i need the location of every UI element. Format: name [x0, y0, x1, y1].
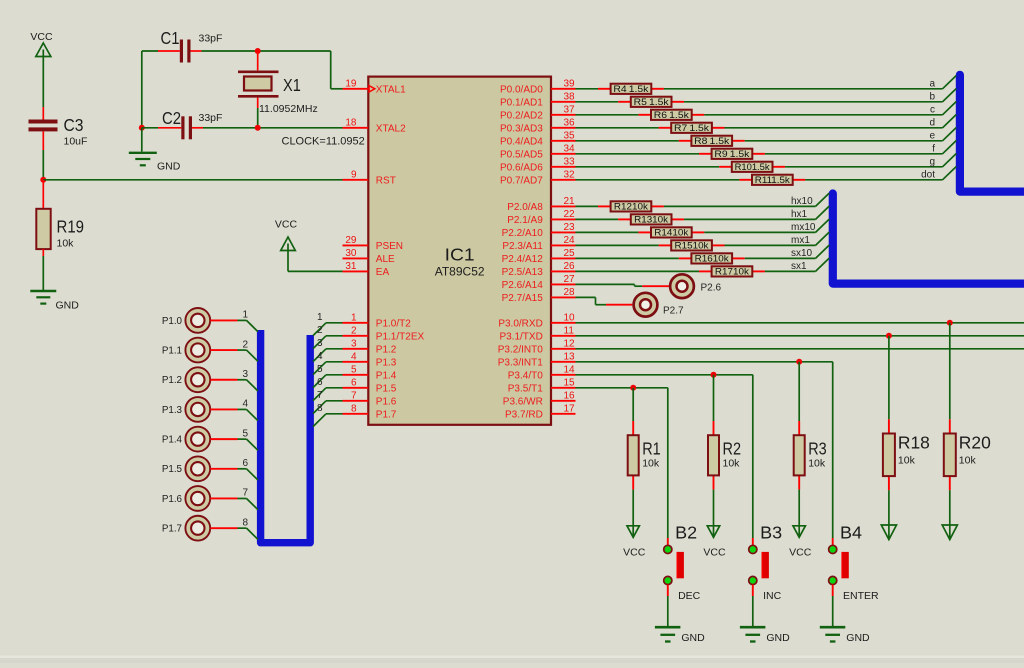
wire pin line to R3: [798, 362, 800, 421]
svg-text:R1: R1: [642, 439, 661, 459]
wire R8 to bus, net e: [745, 128, 957, 141]
svg-text:b: b: [929, 92, 935, 103]
wire R6 to bus, net c: [704, 102, 956, 115]
svg-text:7: 7: [351, 390, 357, 401]
svg-text:hx10: hx10: [791, 196, 813, 207]
svg-text:hx1: hx1: [791, 209, 808, 220]
bus (P1 header U-shape, thick blue): [261, 330, 311, 543]
wire X1 bottom to C2 line: [257, 98, 259, 128]
svg-text:P2.7/A15: P2.7/A15: [502, 293, 544, 304]
svg-text:10uF: 10uF: [64, 136, 88, 148]
svg-text:XTAL1: XTAL1: [376, 85, 406, 96]
svg-text:P1.1/T2EX: P1.1/T2EX: [376, 332, 425, 343]
svg-text:c: c: [930, 105, 935, 116]
IC1 pin 13 (P3.3/INT1) stub: [498, 351, 576, 368]
IC1 pin 33 (P0.6/AD6) stub: [500, 156, 576, 173]
IC1 pin 31 (EA) stub: [343, 261, 390, 278]
IC1 pin 27 (P2.6/A14) stub: [502, 274, 576, 291]
svg-text:mx1: mx1: [791, 235, 810, 246]
svg-text:39: 39: [564, 78, 576, 89]
svg-text:32: 32: [564, 169, 576, 180]
svg-text:VCC: VCC: [623, 546, 646, 558]
svg-text:18: 18: [345, 117, 357, 128]
svg-text:30: 30: [345, 248, 357, 259]
IC1 pin 3 (P1.2) stub: [343, 338, 397, 355]
wire pin 39 to resistor R4: [576, 88, 599, 90]
node junction pin10/R20: [947, 320, 953, 326]
svg-text:X1: X1: [283, 75, 301, 95]
resistor R10 1.5k: [719, 162, 785, 172]
IC1 pin 11 (P3.1/TXD) stub: [499, 325, 575, 342]
wire R11 to bus, net dot: [805, 167, 956, 180]
svg-text:5: 5: [242, 428, 248, 439]
svg-text:10k: 10k: [723, 458, 741, 470]
svg-text:1: 1: [351, 312, 357, 323]
wire R1 to VCC arrow: [632, 490, 634, 536]
resistor R1 10k: [628, 421, 661, 490]
bus (P0 to display, thick blue): [960, 75, 1024, 192]
svg-text:P2.6: P2.6: [701, 282, 722, 293]
svg-text:GND: GND: [766, 632, 790, 644]
wire R13 to bus, net hx1: [684, 206, 829, 219]
wire C1 left + left vertical to C2/GND: [142, 51, 180, 128]
svg-text:7: 7: [317, 390, 323, 401]
svg-text:2: 2: [242, 339, 248, 350]
wire pin 21 to resistor R12: [576, 205, 599, 207]
wire P3.1/TXD (pin 11) long: [576, 335, 1024, 337]
svg-text:P0.3/AD3: P0.3/AD3: [500, 124, 543, 135]
resistor R16 10k: [679, 253, 745, 263]
svg-text:GND: GND: [846, 632, 870, 644]
svg-text:mx10: mx10: [791, 222, 816, 233]
resistor R8 1.5k: [679, 136, 745, 146]
svg-text:GND: GND: [157, 161, 181, 173]
svg-text:P1.2: P1.2: [162, 375, 182, 386]
wire pin 33 to resistor R10: [576, 166, 720, 168]
svg-text:C3: C3: [64, 115, 84, 135]
wire P1.5 pad to bus: [210, 469, 258, 480]
node junction pin13/R3: [796, 359, 802, 365]
svg-text:P3.0/RXD: P3.0/RXD: [498, 319, 542, 330]
svg-text:R6 1.5k: R6 1.5k: [654, 110, 690, 120]
wire R5 to bus, net b: [684, 89, 956, 102]
IC1 pin 7 (P1.6) stub: [343, 390, 397, 407]
IC1 pin 21 (P2.0/A8) stub: [507, 196, 575, 213]
svg-text:P1.5: P1.5: [376, 384, 397, 395]
wire C1 right to XTAL1 corner: [191, 51, 343, 89]
power VCC (EA): [275, 219, 298, 251]
svg-text:R20: R20: [959, 432, 991, 452]
wire bus to IC pin 1: [313, 323, 343, 336]
wire P1.7 pad to bus: [210, 528, 258, 539]
svg-text:3: 3: [351, 338, 357, 349]
svg-text:P1.6: P1.6: [162, 494, 183, 505]
svg-text:14: 14: [564, 364, 576, 375]
svg-text:R1710k: R1710k: [715, 267, 750, 277]
svg-text:P1.3: P1.3: [162, 405, 183, 416]
svg-text:R8 1.5k: R8 1.5k: [694, 136, 730, 146]
svg-text:R4 1.5k: R4 1.5k: [613, 84, 649, 94]
svg-text:P0.1/AD1: P0.1/AD1: [500, 98, 543, 109]
svg-text:P1.2: P1.2: [376, 345, 397, 356]
ground (below B3): [740, 627, 790, 644]
svg-text:sx10: sx10: [791, 248, 813, 259]
svg-text:10k: 10k: [57, 238, 75, 250]
wire B3 to GND: [752, 585, 754, 626]
terminal P2.6: [670, 274, 721, 298]
terminal P1.5 (header pad): [162, 456, 210, 481]
svg-text:P1.0: P1.0: [162, 316, 183, 327]
terminal P1.6 (header pad): [162, 486, 210, 511]
resistor R2 10k: [708, 421, 741, 490]
svg-text:P0.7/AD7: P0.7/AD7: [500, 176, 543, 187]
button B2 (DEC): [664, 523, 701, 603]
svg-text:P1.0/T2: P1.0/T2: [376, 319, 411, 330]
ground (below B4): [820, 627, 870, 644]
IC1 pin 38 (P0.1/AD1) stub: [500, 91, 576, 108]
wire B4 to GND: [832, 585, 834, 626]
IC1 pin 22 (P2.1/A9) stub: [507, 209, 575, 226]
wire pin 27 to terminal P2.6: [576, 284, 670, 286]
IC1 pin 1 (P1.0/T2) stub: [343, 312, 412, 329]
IC1 pin 2 (P1.1/T2EX) stub: [343, 325, 425, 342]
svg-text:11.0952MHz: 11.0952MHz: [259, 103, 318, 115]
IC1 pin 12 (P3.2/INT0) stub: [498, 338, 576, 355]
svg-text:PSEN: PSEN: [376, 241, 403, 252]
IC1 pin 25 (P2.4/A12) stub: [502, 248, 576, 265]
wire R20 to arrow: [949, 490, 951, 538]
wire P1.1 pad to bus: [210, 350, 258, 361]
svg-text:P2.2/A10: P2.2/A10: [502, 228, 544, 239]
resistor R14 10k: [638, 227, 704, 237]
bus (P2 to display, thick blue): [833, 194, 1024, 284]
svg-text:22: 22: [564, 209, 576, 220]
svg-text:12: 12: [564, 338, 576, 349]
svg-text:P1.7: P1.7: [162, 524, 182, 535]
svg-text:d: d: [929, 118, 935, 129]
svg-text:P2.6/A14: P2.6/A14: [502, 280, 544, 291]
svg-text:33pF: 33pF: [199, 33, 223, 45]
svg-text:15: 15: [564, 377, 576, 388]
svg-text:36: 36: [564, 117, 576, 128]
wire pin 38 to resistor R5: [576, 101, 619, 103]
wire R14 to bus, net mx10: [704, 219, 829, 232]
wire pin 24 to resistor R15: [576, 244, 659, 246]
resistor R12 10k: [598, 201, 664, 211]
svg-text:sx1: sx1: [791, 261, 807, 272]
wire R4 to bus, net a: [664, 76, 956, 89]
IC1 pin 39 (P0.0/AD0) stub: [500, 78, 576, 95]
IC1 pin 4 (P1.3) stub: [343, 351, 397, 368]
wire pin line to R20: [949, 323, 951, 420]
svg-text:P2.3/A11: P2.3/A11: [502, 241, 543, 252]
svg-text:R18: R18: [898, 432, 930, 452]
svg-text:XTAL2: XTAL2: [376, 124, 406, 135]
svg-text:RST: RST: [376, 176, 396, 187]
svg-text:R3: R3: [808, 439, 827, 459]
wire R19 to GND: [42, 249, 44, 290]
svg-text:GND: GND: [56, 300, 80, 312]
wire R7 to bus, net d: [725, 115, 957, 128]
wire pin 25 to resistor R16: [576, 257, 679, 259]
node junction pin14/R2: [711, 372, 717, 378]
svg-text:P3.6/WR: P3.6/WR: [503, 397, 543, 408]
svg-text:10k: 10k: [898, 454, 916, 466]
svg-text:P3.3/INT1: P3.3/INT1: [498, 358, 543, 369]
svg-text:ALE: ALE: [376, 254, 395, 265]
svg-text:8: 8: [317, 403, 323, 414]
svg-text:35: 35: [564, 130, 576, 141]
node RST junction: [40, 177, 46, 183]
svg-text:R111.5k: R111.5k: [755, 175, 791, 185]
svg-text:31: 31: [345, 261, 357, 272]
svg-text:33: 33: [564, 156, 576, 167]
svg-text:g: g: [929, 157, 935, 168]
wire R3 to VCC arrow: [798, 490, 800, 536]
IC1 pin 17 (P3.7/RD) stub: [505, 403, 575, 420]
IC1 pin 6 (P1.5) stub: [343, 377, 397, 394]
IC1 pin 37 (P0.2/AD2) stub: [500, 104, 576, 121]
svg-text:26: 26: [564, 261, 576, 272]
node junction pin15/R1: [630, 385, 636, 391]
wire C2 junction down to GND: [141, 128, 143, 152]
resistor R13 10k: [618, 214, 684, 224]
IC1 pin 24 (P2.3/A11) stub: [502, 235, 575, 252]
wire P1.3 pad to bus: [210, 409, 258, 420]
terminal P1.0 (header pad): [162, 308, 210, 333]
svg-text:7: 7: [242, 488, 248, 499]
svg-text:P0.4/AD4: P0.4/AD4: [500, 137, 543, 148]
wire pin line to R1: [632, 388, 634, 421]
terminal P1.3 (header pad): [162, 397, 210, 422]
svg-text:16: 16: [564, 390, 576, 401]
svg-text:3: 3: [242, 369, 248, 380]
resistor R5 1.5k: [618, 97, 684, 107]
IC1 pin 5 (P1.4) stub: [343, 364, 397, 381]
svg-text:P3.4/T0: P3.4/T0: [508, 371, 543, 382]
svg-text:GND: GND: [681, 632, 705, 644]
wire bus to IC pin 5: [313, 375, 343, 388]
svg-text:R5 1.5k: R5 1.5k: [634, 97, 670, 107]
svg-text:ENTER: ENTER: [843, 590, 879, 602]
svg-text:P3.1/TXD: P3.1/TXD: [499, 332, 542, 343]
svg-text:P1.1: P1.1: [162, 345, 182, 356]
wire R2 to VCC arrow: [713, 490, 715, 536]
svg-text:R1610k: R1610k: [695, 254, 730, 264]
svg-text:33pF: 33pF: [199, 112, 223, 124]
wire bus to IC pin 6: [313, 388, 343, 401]
power VCC (below R2): [703, 526, 726, 559]
wire pin 26 to resistor R17: [576, 270, 700, 272]
svg-text:R19: R19: [57, 217, 85, 237]
wire R10 to bus, net g: [785, 154, 956, 167]
resistor R9 1.5k: [699, 149, 765, 159]
svg-text:3: 3: [317, 338, 323, 349]
wire P3.5/T1 (pin 15) to B2: [576, 388, 668, 538]
svg-text:P2.0/A8: P2.0/A8: [507, 202, 543, 213]
svg-text:17: 17: [564, 403, 576, 414]
svg-text:B2: B2: [675, 523, 697, 543]
svg-text:IC1: IC1: [445, 245, 475, 265]
svg-text:EA: EA: [376, 267, 390, 278]
resistor R17 10k: [699, 266, 765, 276]
svg-text:38: 38: [564, 91, 576, 102]
svg-text:8: 8: [351, 403, 357, 414]
wire pin 34 to resistor R9: [576, 153, 700, 155]
wire pin line to R18: [888, 336, 890, 420]
wire C2 row to XTAL2: [142, 127, 343, 129]
capacitor C1 33pF: [161, 28, 223, 63]
svg-text:34: 34: [564, 143, 576, 154]
svg-text:P3.5/T1: P3.5/T1: [508, 384, 543, 395]
wire R16 to bus, net sx10: [745, 245, 830, 258]
wire bus to IC pin 2: [313, 336, 343, 349]
svg-text:1: 1: [317, 312, 323, 323]
terminal P2.7: [634, 293, 684, 317]
wire P1.0 pad to bus: [210, 320, 258, 331]
wire P1.2 pad to bus: [210, 380, 258, 391]
wire R9 to bus, net f: [765, 141, 956, 154]
svg-text:f: f: [932, 144, 935, 155]
svg-text:P1.6: P1.6: [376, 397, 397, 408]
svg-text:P2.4/A12: P2.4/A12: [502, 254, 544, 265]
svg-text:27: 27: [564, 274, 576, 285]
svg-text:C2: C2: [162, 108, 181, 128]
resistor R15 10k: [659, 240, 725, 250]
svg-text:e: e: [929, 131, 935, 142]
svg-text:1: 1: [242, 310, 248, 321]
wire pin 37 to resistor R6: [576, 114, 639, 116]
button B4 (ENTER): [829, 523, 879, 603]
svg-text:R1510k: R1510k: [675, 241, 710, 251]
svg-text:P1.4: P1.4: [376, 371, 397, 382]
power VCC (below R1): [623, 526, 646, 559]
svg-text:R2: R2: [723, 439, 742, 459]
power arrow (below R20): [942, 525, 957, 540]
svg-text:5: 5: [317, 364, 323, 375]
IC1 pin 26 (P2.5/A13) stub: [502, 261, 576, 278]
svg-text:P3.2/INT0: P3.2/INT0: [498, 345, 543, 356]
IC1 pin 8 (P1.7) stub: [343, 403, 397, 420]
wire bus to IC pin 7: [313, 401, 343, 414]
svg-text:R9 1.5k: R9 1.5k: [714, 149, 750, 159]
svg-text:R1210k: R1210k: [614, 202, 649, 212]
IC1 pin 19 (XTAL1) stub: [343, 78, 407, 95]
wire R15 to bus, net mx1: [725, 232, 830, 245]
svg-text:23: 23: [564, 222, 576, 233]
wire pin 35 to resistor R8: [576, 140, 679, 142]
svg-text:R101.5k: R101.5k: [735, 162, 771, 172]
svg-text:8: 8: [242, 517, 248, 528]
wire RST node to IC pin 9: [43, 179, 342, 181]
svg-text:37: 37: [564, 104, 576, 115]
terminal P1.7 (header pad): [162, 516, 210, 541]
svg-text:P0.5/AD5: P0.5/AD5: [500, 150, 543, 161]
terminal P1.1 (header pad): [162, 338, 210, 363]
svg-text:P1.4: P1.4: [162, 435, 183, 446]
IC1 pin 16 (P3.6/WR) stub: [503, 390, 576, 407]
svg-text:B3: B3: [760, 523, 782, 543]
IC1 pin 14 (P3.4/T0) stub: [508, 364, 576, 381]
node X1/C2 junction: [255, 125, 261, 131]
IC1 pin 36 (P0.3/AD3) stub: [500, 117, 576, 134]
wire bus to IC pin 8: [313, 414, 343, 427]
svg-text:R7 1.5k: R7 1.5k: [674, 123, 710, 133]
svg-text:19: 19: [345, 78, 357, 89]
wire R18 to arrow: [888, 490, 890, 538]
svg-text:P1.5: P1.5: [162, 464, 183, 475]
svg-text:11: 11: [564, 325, 575, 336]
svg-text:P0.2/AD2: P0.2/AD2: [500, 111, 543, 122]
svg-text:P0.6/AD6: P0.6/AD6: [500, 163, 543, 174]
svg-text:dot: dot: [921, 170, 935, 181]
svg-text:P2.1/A9: P2.1/A9: [507, 215, 543, 226]
IC1 pin 32 (P0.7/AD7) stub: [500, 169, 576, 186]
IC1 pin 28 (P2.7/A15) stub: [502, 287, 576, 304]
IC1 pin 35 (P0.4/AD4) stub: [500, 130, 576, 147]
svg-text:VCC: VCC: [703, 546, 726, 558]
terminal P1.4 (header pad): [162, 427, 210, 452]
svg-text:6: 6: [242, 458, 248, 469]
IC1 pin 34 (P0.5/AD5) stub: [500, 143, 576, 160]
power VCC (below R3): [789, 526, 812, 559]
svg-text:AT89C52: AT89C52: [435, 265, 485, 279]
wire C3 to RST node: [42, 131, 44, 179]
svg-text:R1310k: R1310k: [634, 215, 669, 225]
svg-text:6: 6: [351, 377, 357, 388]
terminal P1.2 (header pad): [162, 367, 210, 392]
ground (below B2): [655, 627, 705, 644]
power arrow (below R18): [881, 525, 896, 540]
svg-text:VCC: VCC: [30, 31, 53, 43]
wire bus to IC pin 4: [313, 362, 343, 375]
wire VCC to C3: [42, 50, 44, 120]
resistor R19 10k: [36, 180, 84, 250]
wire P1.4 pad to bus: [210, 439, 258, 450]
svg-text:10k: 10k: [642, 458, 660, 470]
crystal X1 11.0952MHz: [238, 51, 318, 115]
wire P3.4/T0 (pin 14) to B3: [576, 375, 753, 538]
svg-text:R1410k: R1410k: [654, 228, 689, 238]
svg-text:6: 6: [317, 377, 323, 388]
svg-text:P1.3: P1.3: [376, 358, 397, 369]
svg-text:2: 2: [317, 325, 323, 336]
svg-text:a: a: [929, 79, 935, 90]
svg-text:5: 5: [351, 364, 357, 375]
IC1 pin 10 (P3.0/RXD) stub: [498, 312, 575, 329]
svg-text:28: 28: [564, 287, 576, 298]
ground (crystal): [129, 153, 181, 173]
IC1 pin 9 (RST) stub: [343, 169, 396, 186]
svg-text:VCC: VCC: [275, 219, 298, 231]
wire pin line to R2: [713, 375, 715, 421]
svg-text:2: 2: [351, 325, 357, 336]
resistor R6 1.5k: [638, 110, 704, 120]
IC1 pin 30 (ALE) stub: [343, 248, 396, 265]
svg-text:P2.7: P2.7: [663, 305, 684, 316]
wire pin 22 to resistor R13: [576, 218, 619, 220]
svg-text:P0.0/AD0: P0.0/AD0: [500, 85, 543, 96]
svg-text:P2.5/A13: P2.5/A13: [502, 267, 544, 278]
resistor R11 1.5k: [739, 175, 805, 185]
wire B2 to GND: [667, 585, 669, 626]
pin 19 XTAL1 clock input triangle: [369, 86, 375, 92]
resistor R20 10k: [944, 419, 991, 490]
svg-text:10: 10: [564, 312, 576, 323]
resistor R7 1.5k: [659, 123, 725, 133]
IC1 pin 29 (PSEN) stub: [343, 235, 404, 252]
ground (below R19): [30, 291, 79, 312]
